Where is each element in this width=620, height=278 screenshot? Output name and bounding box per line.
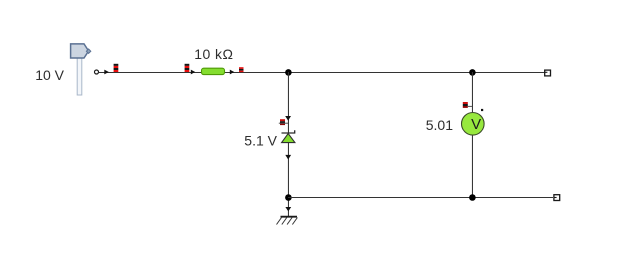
ground [277, 217, 298, 225]
pin dot (voltmeter plus mark) [481, 109, 483, 111]
probe marker 1 [114, 64, 119, 72]
current arrow 2 [191, 70, 195, 75]
probe marker 3 [239, 67, 244, 72]
probe marker 4 [279, 119, 288, 125]
current arrow 5 (below zener) [285, 155, 291, 160]
wire bottom horizontal [288, 197, 553, 199]
wire top horizontal [99, 72, 546, 74]
junction node B (bottom of zener branch) [285, 194, 292, 201]
probe marker 5 [463, 102, 472, 108]
current arrow 6 (into ground) [285, 207, 291, 211]
current arrow 1 [104, 70, 109, 75]
current arrow 3 [230, 70, 234, 75]
current arrow 4 (down into zener) [285, 116, 291, 121]
voltage source flag V1 [71, 44, 91, 95]
wire zener branch vertical [287, 72, 289, 217]
zener diode D1 cathode bar [282, 130, 295, 133]
terminal bottom-right [554, 195, 560, 201]
zener diode D1 triangle [282, 134, 295, 143]
junction node D (bottom of voltmeter branch) [469, 194, 476, 201]
svg-text:10 V: 10 V [35, 67, 64, 83]
terminal top-right [545, 70, 551, 76]
svg-text:10 kΩ: 10 kΩ [194, 46, 233, 62]
voltmeter U1 [462, 113, 485, 136]
svg-text:5.01: 5.01 [426, 117, 453, 133]
svg-text:V: V [471, 116, 481, 133]
node input pin circle [95, 70, 99, 74]
resistor R1 [202, 68, 225, 74]
probe marker 2 [185, 64, 190, 72]
svg-text:5.1 V: 5.1 V [244, 132, 277, 148]
wire voltmeter branch vertical [471, 72, 473, 198]
junction node A (top of zener branch) [285, 69, 292, 76]
junction node C (top of voltmeter branch) [469, 69, 476, 76]
